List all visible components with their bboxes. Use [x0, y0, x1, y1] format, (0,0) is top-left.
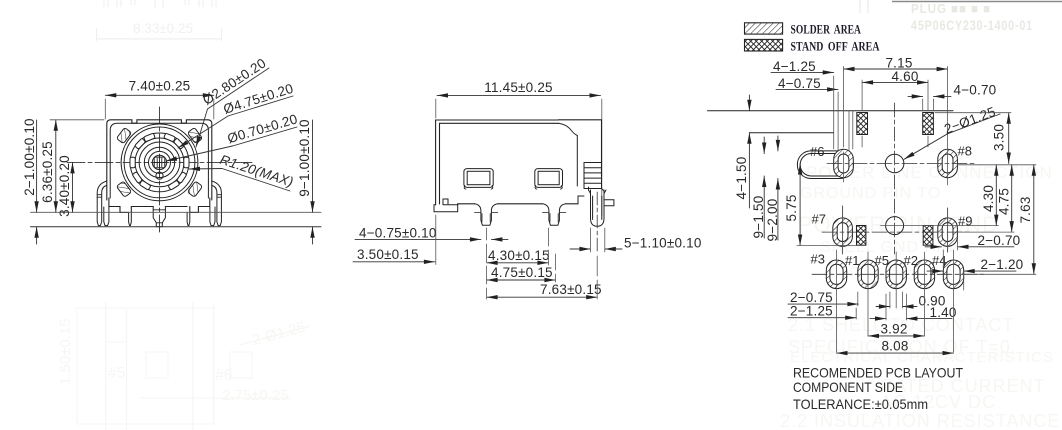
row3 centerline [812, 273, 986, 275]
faint title block line [892, 1, 1062, 3]
corner standoff pad BL [116, 181, 131, 197]
svg-text:2-Ø1.25: 2-Ø1.25 [250, 319, 307, 349]
window 2 [535, 169, 563, 188]
svg-text:#8: #8 [958, 144, 972, 159]
svg-text:2.2 INSULATION RESISTANCE 100M: 2.2 INSULATION RESISTANCE 100M [780, 411, 1062, 430]
row1 centerline [827, 163, 976, 165]
svg-text:1.40: 1.40 [930, 305, 957, 320]
vertical center axis [894, 103, 896, 254]
svg-text:4−0.70: 4−0.70 [954, 82, 997, 97]
svg-text:#2: #2 [904, 253, 918, 268]
svg-text:3.40±0.20: 3.40±0.20 [57, 155, 72, 217]
svg-text:#6: #6 [215, 367, 233, 384]
svg-text:STAND OFF AREA: STAND OFF AREA [791, 39, 880, 54]
corner standoff pad TR [187, 128, 202, 144]
pad 4 [943, 260, 963, 289]
svg-text:1.50±0.15: 1.50±0.15 [57, 318, 74, 385]
standoff square row2 right [923, 226, 933, 246]
svg-text:4−1.25: 4−1.25 [773, 59, 816, 74]
svg-text:5.75: 5.75 [784, 194, 799, 221]
svg-text:8.33±0.25: 8.33±0.25 [133, 21, 193, 36]
svg-text:4−0.75±0.10: 4−0.75±0.10 [359, 226, 437, 241]
connector body outline [107, 120, 212, 200]
svg-text:COMPONENT SIDE: COMPONENT SIDE [793, 379, 903, 395]
svg-text:4.30±0.15: 4.30±0.15 [488, 248, 550, 263]
svg-text:8.08: 8.08 [881, 338, 908, 353]
svg-text:PLUG ■■ ■ ■: PLUG ■■ ■ ■ [911, 1, 991, 16]
index hole below center [156, 172, 163, 179]
right bent shield tab [212, 181, 222, 226]
pad 5 [886, 260, 906, 289]
contact windows [130, 133, 189, 190]
svg-text:RECOMENDED PCB LAYOUT: RECOMENDED PCB LAYOUT [793, 365, 963, 381]
right small tab [604, 200, 614, 206]
svg-text:7.63: 7.63 [1018, 196, 1033, 223]
svg-text:4−0.75: 4−0.75 [778, 76, 821, 91]
standoff area swatch [745, 39, 783, 51]
standoff square row2 left [857, 226, 866, 246]
svg-text:4.30: 4.30 [981, 185, 996, 212]
svg-text:4−1.50: 4−1.50 [734, 157, 749, 200]
hole 1 [885, 154, 904, 173]
svg-text:2−1.25: 2−1.25 [790, 304, 833, 319]
solder area swatch [745, 23, 783, 34]
svg-text:2.75±0.25: 2.75±0.25 [222, 387, 289, 404]
center pin square [154, 157, 165, 168]
ext lines top [834, 67, 948, 186]
svg-text:45P06CY230-1400-01: 45P06CY230-1400-01 [911, 17, 1033, 33]
bottom ext lines [837, 290, 954, 352]
inner left leg [129, 212, 132, 225]
standoff square row1 left [857, 113, 868, 135]
svg-text:7.40±0.25: 7.40±0.25 [129, 79, 191, 94]
svg-text:3.50±0.15: 3.50±0.15 [357, 247, 419, 262]
outline line y132.8 [749, 132, 833, 134]
pin centerline [596, 192, 598, 254]
leader dia 2.80 [196, 109, 208, 147]
svg-text:5−1.10±0.10: 5−1.10±0.10 [624, 236, 702, 251]
shield tab stack [584, 163, 602, 189]
svg-text:#9: #9 [958, 214, 972, 229]
svg-text:#7: #7 [812, 212, 826, 227]
svg-text:7.63±0.15: 7.63±0.15 [540, 282, 602, 297]
inner right leg [187, 212, 190, 225]
svg-text:#6: #6 [810, 144, 824, 159]
ghost drawing top-left [96, 0, 222, 41]
svg-text:3.50: 3.50 [992, 124, 1007, 151]
svg-text:ELECTRICAL CHARACTERISTICS: ELECTRICAL CHARACTERISTICS [790, 349, 1054, 366]
center pin cross [154, 156, 166, 168]
solder leg 2 [543, 204, 566, 226]
right leg 2 [210, 207, 215, 226]
leader dia 0.70 [166, 146, 233, 161]
pad 9 [938, 218, 958, 247]
svg-text:4.75±0.15: 4.75±0.15 [491, 265, 553, 280]
body inner outline [110, 123, 208, 198]
svg-text:4.60: 4.60 [891, 69, 918, 84]
svg-text:GROUND PIN TO: GROUND PIN TO [800, 185, 941, 202]
dc pin [589, 187, 607, 226]
leg extension lines [486, 228, 488, 299]
centerline horizontal [67, 161, 252, 163]
leader dia 4.75 [178, 116, 228, 148]
svg-text:#5: #5 [108, 365, 126, 382]
leader R1.20 [189, 168, 222, 171]
svg-text:#3: #3 [811, 252, 825, 267]
svg-text:#4: #4 [932, 253, 946, 268]
svg-text:9−1.00±0.10: 9−1.00±0.10 [297, 119, 312, 197]
ghost drawing bottom-left [75, 302, 310, 430]
svg-text:2−0.70: 2−0.70 [978, 233, 1021, 248]
left leg 2 [104, 207, 109, 226]
corner standoff pad TL [116, 128, 131, 144]
bottom edge of body with steps [109, 198, 210, 212]
svg-text:3.92: 3.92 [880, 321, 907, 336]
pad9 axis [947, 208, 949, 252]
tab outline pad6 outer [797, 151, 853, 179]
corner standoff pad BR [187, 181, 202, 197]
svg-text:Ø0.70±0.20: Ø0.70±0.20 [226, 111, 300, 146]
bottom edge [458, 204, 578, 205]
seating plane line [31, 211, 322, 213]
window 1 [464, 169, 493, 188]
pcb surface line [31, 226, 322, 228]
standoff square row1 right [923, 113, 934, 135]
concentric circles [121, 124, 198, 201]
svg-text:2−1.20: 2−1.20 [981, 257, 1024, 272]
housing outline [436, 120, 602, 205]
row2 pads centerline [822, 231, 972, 233]
left bent shield tab [97, 181, 107, 226]
svg-text:2−1.00±0.10: 2−1.00±0.10 [22, 118, 37, 196]
svg-text:4.75: 4.75 [997, 188, 1012, 215]
svg-text:6.36±0.25: 6.36±0.25 [40, 141, 55, 203]
pad 3 [826, 260, 846, 289]
svg-text:#5: #5 [875, 253, 889, 268]
step below stack [578, 189, 604, 211]
top tails line [708, 110, 954, 112]
svg-text:#1: #1 [845, 253, 859, 268]
tab outline pad6 inner [800, 154, 849, 177]
left foot [434, 199, 458, 212]
centerline vertical [159, 107, 161, 232]
top right fillet step [558, 123, 577, 186]
pad 7 [833, 218, 853, 247]
pad 1 [858, 260, 878, 289]
pad 8 [938, 149, 958, 178]
svg-text:11.45±0.25: 11.45±0.25 [484, 80, 552, 95]
solder leg 1 [475, 204, 498, 226]
leader 2-dia1.25 [904, 134, 948, 160]
svg-text:TOLERANCE:±0.05mm: TOLERANCE:±0.05mm [793, 396, 928, 412]
svg-text:SOLDER AREA: SOLDER AREA [791, 22, 862, 37]
pad 6 [834, 149, 854, 178]
svg-text:2−Ø1.25: 2−Ø1.25 [942, 104, 997, 137]
center pin leg [153, 207, 165, 227]
hole 2 [886, 217, 904, 235]
pad 2 [914, 260, 934, 289]
pad7 axis [842, 206, 844, 254]
